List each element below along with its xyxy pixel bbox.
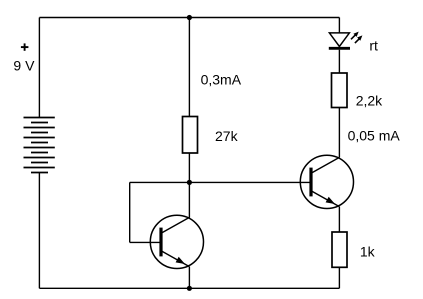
svg-text:rt: rt xyxy=(369,38,378,54)
transistor Q2 xyxy=(300,155,353,208)
LED D1 xyxy=(329,33,350,48)
wire R3 to bottom rail xyxy=(338,267,340,288)
svg-text:9 V: 9 V xyxy=(13,58,35,74)
wire LED to R2 xyxy=(338,50,340,73)
wire Q2 emitter to R3 xyxy=(338,207,340,232)
node top junction xyxy=(187,15,192,20)
battery B1 9V xyxy=(24,118,55,173)
wire base rail to Q2 xyxy=(130,181,310,183)
wire left rail upper xyxy=(38,18,40,118)
resistor R1 27k xyxy=(183,117,198,154)
wire Q1 emitter down xyxy=(188,267,190,289)
svg-text:0,05 mA: 0,05 mA xyxy=(348,127,401,143)
svg-text:0,3mA: 0,3mA xyxy=(201,72,242,88)
label + polarity xyxy=(21,43,29,50)
resistor R3 1k xyxy=(332,232,347,267)
wire feedback left down xyxy=(129,182,131,242)
node base junction xyxy=(187,180,192,185)
resistor R2 2,2k xyxy=(332,73,348,108)
wire right rail top xyxy=(338,18,340,33)
node emitter bottom junction xyxy=(187,286,192,291)
svg-text:2,2k: 2,2k xyxy=(356,93,383,109)
wire left rail lower xyxy=(38,173,40,289)
svg-text:27k: 27k xyxy=(215,128,239,144)
wire feedback to Q1 base xyxy=(130,241,160,243)
wire middle branch upper xyxy=(188,18,190,117)
svg-text:1k: 1k xyxy=(360,244,376,260)
LED arrow 2 xyxy=(355,35,363,43)
LED arrow 1 xyxy=(351,32,359,40)
wire top rail xyxy=(39,17,339,19)
wire R2 to Q2 collector xyxy=(338,108,340,158)
wire bottom rail xyxy=(39,287,339,289)
transistor Q1 xyxy=(150,215,203,268)
wire middle branch lower xyxy=(188,153,190,218)
